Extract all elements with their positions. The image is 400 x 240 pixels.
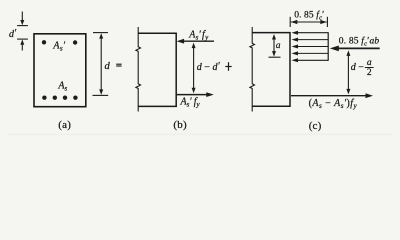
svg-text:(c): (c): [309, 120, 322, 132]
beam section (a) outline: [34, 34, 86, 107]
svg-text:d: d: [105, 61, 111, 72]
svg-text:(b): (b): [173, 119, 187, 131]
plus sign: [225, 62, 231, 71]
equals sign: [116, 64, 121, 66]
stress block right boundary: [327, 32, 329, 61]
dimension d-d': [192, 43, 196, 94]
compression steel dots As': [42, 40, 78, 45]
resultant force 0.85 fc'ab: [330, 46, 380, 52]
svg-text:d′: d′: [9, 28, 17, 40]
svg-text:d −: d −: [351, 62, 365, 73]
svg-text:a: a: [367, 58, 372, 68]
section (b) outline: [138, 33, 176, 106]
force arrow As'fy top: [177, 39, 214, 44]
tension force (As-As')fy: [291, 93, 373, 98]
dimension d': [17, 12, 28, 51]
svg-text:0. 85 fc′ab: 0. 85 fc′ab: [339, 36, 380, 48]
section (b) cut edge with break marks: [136, 27, 141, 112]
scan smudge band: [8, 133, 392, 135]
svg-text:As′: As′: [52, 41, 65, 53]
stress block arrows: [292, 31, 329, 63]
svg-text:(a): (a): [58, 119, 71, 131]
svg-text:2: 2: [367, 68, 372, 78]
section (c) outline: [252, 33, 290, 107]
svg-text:d − d′: d − d′: [197, 61, 221, 73]
label d-a/2: [351, 58, 374, 78]
dimension 0.85 fc' width: [290, 17, 327, 27]
dimension a: [269, 34, 281, 57]
svg-text:(As − As′)fy: (As − As′)fy: [309, 98, 358, 110]
dimension d: [93, 33, 109, 96]
svg-text:a: a: [276, 41, 281, 51]
tension steel dots As: [42, 96, 77, 100]
section (c) cut edge with break marks: [250, 27, 255, 112]
force arrow As'fy bottom: [177, 92, 214, 97]
dimension d-a/2: [346, 50, 350, 94]
